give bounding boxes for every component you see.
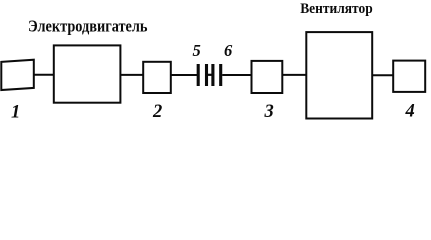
svg-text:1: 1 [11, 103, 20, 123]
coupling elastic element link [207, 74, 213, 76]
svg-text:2: 2 [152, 102, 162, 122]
svg-text:Электродвигатель: Электродвигатель [28, 17, 148, 36]
fan block [306, 32, 372, 118]
wire [120, 74, 143, 76]
wire [171, 74, 197, 76]
block 3 [252, 61, 283, 93]
svg-text:5: 5 [193, 41, 201, 60]
block 1 [1, 60, 34, 90]
block 2 [143, 62, 171, 93]
wire [34, 74, 54, 76]
coupling half 5 [197, 64, 200, 86]
wire [282, 74, 306, 76]
wire [372, 74, 393, 76]
svg-text:3: 3 [264, 102, 274, 122]
coupling half 6 [219, 64, 222, 86]
coupling elastic element left plate [205, 64, 208, 86]
block 4 [393, 61, 425, 92]
svg-text:6: 6 [224, 41, 233, 60]
coupling elastic element right plate [211, 64, 214, 86]
svg-text:4: 4 [405, 102, 415, 122]
svg-text:Вентилятор: Вентилятор [300, 1, 373, 17]
motor block 2 [54, 45, 121, 102]
wire [222, 74, 251, 76]
